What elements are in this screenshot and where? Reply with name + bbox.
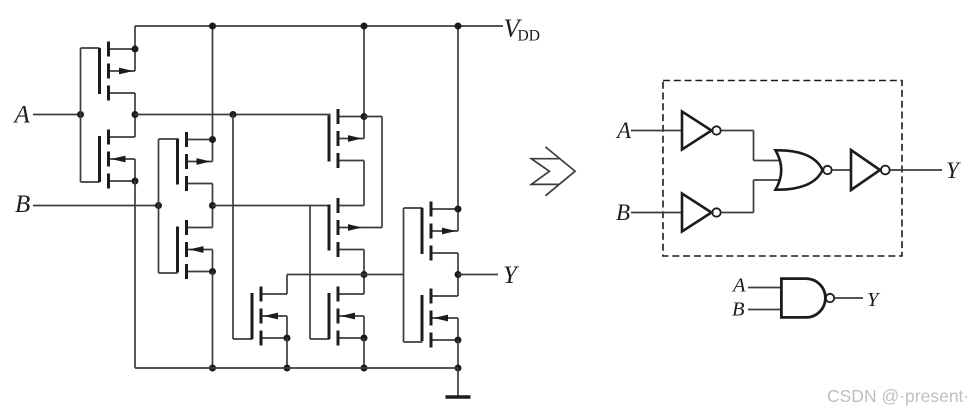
gate bracket inverter3 bbox=[404, 208, 423, 342]
watermark bbox=[827, 386, 969, 406]
node A junction bbox=[77, 111, 84, 118]
wire output Y bbox=[458, 274, 498, 276]
wire Q4 source to ground rail bbox=[212, 272, 214, 369]
transistor Q5 (PMOS, NOR pull-up) bbox=[329, 109, 364, 168]
wire NOTA branch down to Q7 gate bbox=[232, 115, 234, 340]
node Q3 source bbox=[209, 136, 216, 143]
node NOTB (inverter2 output) bbox=[209, 202, 216, 209]
wire Q3 drain to node NOTB bbox=[212, 184, 214, 206]
node B junction bbox=[155, 202, 162, 209]
node Q9 source bbox=[455, 206, 462, 213]
wire Q5 source to VDD bbox=[363, 26, 365, 117]
wire Q10 drain to node Y bbox=[457, 275, 459, 297]
node Q1 source bbox=[132, 46, 139, 53]
wire Q2 source to ground rail bbox=[134, 181, 136, 368]
node Q5 source bbox=[361, 113, 368, 120]
node VDD junction Q3 bbox=[209, 23, 216, 30]
wire Q7 source to ground rail bbox=[286, 338, 288, 368]
wire input A bbox=[33, 114, 81, 116]
node VDD junction Q5 bbox=[361, 23, 368, 30]
wire Q4 drain to node NOTB bbox=[212, 206, 214, 228]
dashed equivalence box bbox=[663, 81, 902, 257]
wire B to inverter G2 bbox=[631, 212, 682, 214]
wire A to NAND bbox=[748, 287, 782, 289]
wire Q9 drain to node Y bbox=[457, 253, 459, 275]
wire B to NAND bbox=[748, 309, 782, 311]
wire Q8 gate arm bbox=[310, 338, 330, 340]
svg-text:B: B bbox=[15, 191, 30, 218]
gate bracket inverter1 bbox=[81, 48, 100, 182]
node ground junction Q10 bbox=[455, 365, 462, 372]
wire G1 output to G3 bbox=[721, 131, 779, 161]
transistor Q3 (PMOS, B-inverter) bbox=[178, 132, 213, 191]
wire Q5 drain to Q6 source bbox=[363, 161, 365, 206]
node Q7 source bbox=[284, 335, 291, 342]
wire A to inverter G1 bbox=[631, 130, 682, 132]
svg-text:A: A bbox=[13, 102, 31, 129]
input label A bbox=[13, 102, 31, 129]
node Q2 source bbox=[132, 178, 139, 185]
ground rail bbox=[135, 367, 458, 369]
node NOTA (inverter1 output) bbox=[132, 111, 139, 118]
wire G2 output to G3 bbox=[721, 180, 779, 213]
equivalence arrow symbol bbox=[531, 147, 575, 196]
input label A (NAND) bbox=[731, 275, 746, 297]
svg-text:A: A bbox=[615, 118, 632, 143]
node NORout junction bbox=[361, 271, 368, 278]
VDD label bbox=[504, 14, 540, 45]
wire net NOTB to Q6 gate bbox=[213, 205, 331, 207]
transistor Q10 (NMOS, output inverter) bbox=[422, 289, 458, 348]
node ground junction Q4 bbox=[209, 365, 216, 372]
ground stem bbox=[457, 368, 459, 397]
wire bulk bypass Q6 to VDD net bbox=[381, 117, 383, 228]
transistor Q6 (PMOS, NOR pull-up) bbox=[329, 198, 382, 257]
svg-text:DD: DD bbox=[518, 28, 540, 45]
output label Y (NAND) bbox=[867, 289, 881, 311]
inverter G1 (NOT A) bbox=[682, 112, 721, 150]
transistor Q8 (NMOS, NOR pull-down) bbox=[329, 287, 364, 346]
node Q10 source bbox=[455, 337, 462, 344]
wire NAND output Y bbox=[835, 297, 863, 299]
wire Q1 drain to node NOTA bbox=[134, 93, 136, 115]
node Y (inverter3 output) bbox=[455, 271, 462, 278]
output label Y bbox=[503, 262, 520, 289]
wire Q1 source to VDD bbox=[134, 26, 136, 49]
inverter G2 (NOT B) bbox=[682, 194, 721, 232]
inverter G4 bbox=[851, 150, 890, 190]
node VDD junction Q9 bbox=[455, 23, 462, 30]
transistor Q4 (NMOS, B-inverter) bbox=[178, 220, 213, 279]
wire NOTB branch down to Q8 gate bbox=[309, 206, 311, 340]
input label B (logic) bbox=[616, 200, 630, 225]
input label B (NAND) bbox=[732, 299, 745, 321]
node ground junction Q8 bbox=[361, 365, 368, 372]
transistor Q2 (NMOS, A-inverter) bbox=[100, 130, 136, 189]
node Q8 source bbox=[361, 335, 368, 342]
node ground junction Q7 bbox=[284, 365, 291, 372]
wire Q2 drain to node NOTA bbox=[134, 115, 136, 138]
wire Q10 source to ground rail bbox=[457, 340, 459, 368]
svg-text:A: A bbox=[731, 275, 746, 297]
svg-text:B: B bbox=[616, 200, 630, 225]
wire Q5 source extension bbox=[364, 116, 382, 118]
wire G3 output to G4 bbox=[832, 169, 851, 171]
wire net NORout bbox=[287, 274, 404, 276]
svg-text:CSDN @·present·: CSDN @·present· bbox=[827, 386, 969, 406]
wire Q8 source to ground rail bbox=[363, 338, 365, 368]
transistor Q9 (PMOS, output inverter) bbox=[422, 202, 458, 261]
VDD power rail bbox=[135, 25, 503, 27]
node NOTA branch bbox=[230, 111, 237, 118]
wire Q8 bulk tie bbox=[363, 316, 365, 338]
wire net NOTA to Q5 gate bbox=[135, 114, 331, 116]
wire Q6 drain to node NORout bbox=[363, 250, 365, 295]
gate bracket inverter2 bbox=[159, 139, 178, 273]
transistor Q1 (PMOS, A-inverter) bbox=[100, 42, 136, 101]
ground bbox=[446, 395, 471, 398]
wire Q9 source to VDD bbox=[457, 26, 459, 209]
wire Q7 gate arm bbox=[233, 338, 253, 340]
wire input B bbox=[33, 205, 159, 207]
svg-text:Y: Y bbox=[946, 158, 961, 183]
svg-text:B: B bbox=[732, 299, 745, 321]
NOR gate G3 bbox=[776, 150, 832, 189]
wire G4 output Y bbox=[890, 169, 942, 171]
output label Y (logic) bbox=[946, 158, 961, 183]
wire Q3 source to VDD bbox=[212, 26, 214, 140]
input label A (logic) bbox=[615, 118, 632, 143]
node Q4 source bbox=[209, 268, 216, 275]
transistor Q7 (NMOS, NOR pull-down) bbox=[252, 287, 287, 346]
input label B bbox=[15, 191, 30, 218]
NAND gate G5 bbox=[781, 279, 834, 318]
wire Q7 drain riser bbox=[286, 275, 288, 295]
